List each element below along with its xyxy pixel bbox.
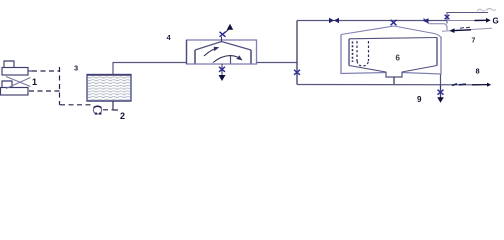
svg-text:6: 6 [396, 54, 401, 63]
svg-text:3: 3 [74, 64, 78, 73]
svg-text:1: 1 [32, 77, 37, 87]
svg-text:7: 7 [472, 38, 476, 45]
svg-text:G: G [493, 17, 499, 26]
svg-text:2: 2 [120, 111, 125, 121]
svg-text:9: 9 [417, 95, 422, 104]
svg-text:8: 8 [476, 67, 480, 76]
